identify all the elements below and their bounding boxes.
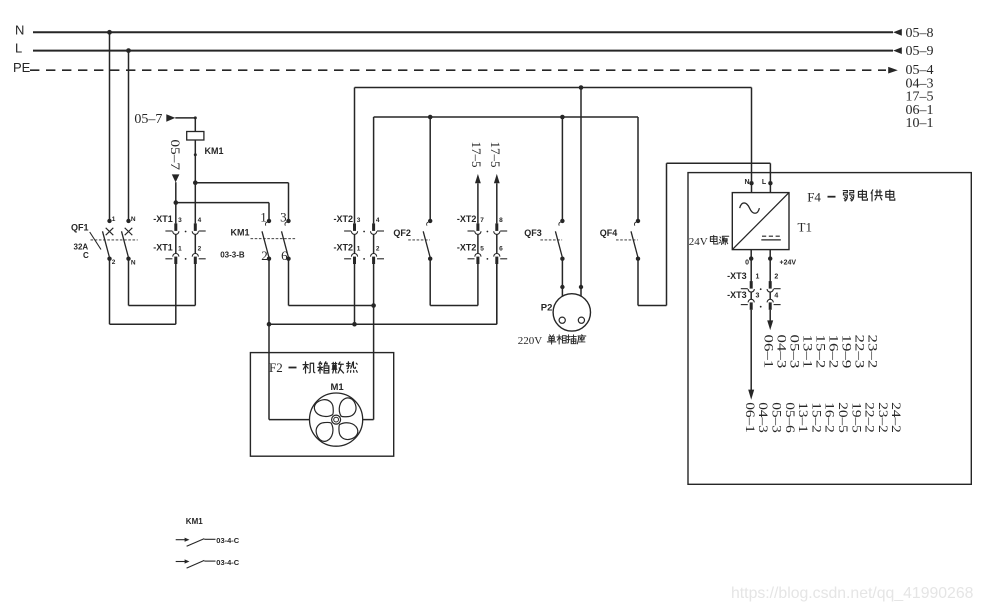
- svg-text:17–5: 17–5: [488, 142, 503, 168]
- svg-text:KM1: KM1: [186, 517, 203, 526]
- svg-text:03-4-C: 03-4-C: [216, 536, 240, 545]
- svg-text:13–1: 13–1: [800, 335, 814, 369]
- svg-text:3: 3: [280, 210, 287, 225]
- svg-text:N: N: [131, 216, 136, 223]
- svg-text:04–3: 04–3: [774, 335, 788, 369]
- svg-text:-XT2: -XT2: [333, 214, 353, 224]
- svg-text:N: N: [744, 179, 749, 186]
- svg-text:220V: 220V: [518, 335, 543, 347]
- svg-text:24–2: 24–2: [889, 402, 904, 433]
- svg-text:6: 6: [499, 246, 503, 253]
- svg-text:7: 7: [480, 217, 484, 224]
- svg-text:5: 5: [480, 246, 484, 253]
- svg-text:2: 2: [261, 248, 268, 263]
- svg-text:23–2: 23–2: [865, 335, 879, 369]
- svg-text:3: 3: [178, 217, 182, 224]
- svg-text:KM1: KM1: [205, 146, 224, 156]
- svg-text:L: L: [15, 41, 22, 56]
- svg-text:-XT2: -XT2: [333, 243, 353, 253]
- svg-text:-XT3: -XT3: [727, 290, 747, 300]
- svg-text:-XT2: -XT2: [457, 243, 477, 253]
- svg-text:3: 3: [357, 217, 361, 224]
- svg-text:16–2: 16–2: [826, 335, 840, 369]
- svg-text:QF4: QF4: [600, 228, 618, 238]
- svg-text:3: 3: [756, 293, 760, 300]
- svg-text:-XT3: -XT3: [727, 271, 747, 281]
- svg-text:1: 1: [178, 246, 182, 253]
- svg-text:24V: 24V: [689, 236, 708, 248]
- svg-text:1: 1: [260, 210, 267, 225]
- svg-text:4: 4: [376, 217, 380, 224]
- svg-text:QF3: QF3: [524, 228, 542, 238]
- svg-text:F4: F4: [807, 189, 821, 204]
- svg-text:19–9: 19–9: [839, 335, 853, 369]
- svg-text:05–3: 05–3: [787, 335, 801, 369]
- svg-text:T1: T1: [798, 219, 812, 234]
- svg-text:4: 4: [198, 217, 202, 224]
- svg-text:4: 4: [774, 293, 778, 300]
- svg-text:QF1: QF1: [71, 223, 89, 233]
- svg-text:C: C: [83, 251, 89, 260]
- svg-text:-XT1: -XT1: [153, 243, 173, 253]
- svg-text:10–1: 10–1: [906, 116, 934, 131]
- svg-text:03-3-B: 03-3-B: [220, 250, 245, 259]
- svg-text:2: 2: [774, 274, 778, 281]
- svg-text:22–3: 22–3: [852, 335, 866, 369]
- svg-text:05–7: 05–7: [134, 112, 162, 127]
- svg-text:N: N: [15, 22, 24, 37]
- svg-text:8: 8: [499, 217, 503, 224]
- svg-text:L: L: [762, 179, 767, 186]
- svg-text:+24V: +24V: [780, 259, 797, 266]
- svg-text:05–8: 05–8: [906, 26, 934, 41]
- svg-text:https://blog.csdn.net/qq_41990: https://blog.csdn.net/qq_41990268: [731, 585, 974, 602]
- svg-text:M1: M1: [331, 382, 345, 393]
- svg-text:1: 1: [357, 246, 361, 253]
- svg-text:KM1: KM1: [231, 227, 250, 237]
- svg-text:06–1: 06–1: [761, 335, 775, 369]
- svg-text:2: 2: [376, 246, 380, 253]
- svg-text:QF2: QF2: [393, 228, 411, 238]
- svg-text:05–7: 05–7: [167, 139, 182, 170]
- svg-text:15–2: 15–2: [813, 335, 827, 369]
- svg-text:2: 2: [112, 259, 116, 266]
- svg-text:17–5: 17–5: [469, 142, 484, 168]
- svg-text:N: N: [131, 259, 136, 266]
- svg-text:0: 0: [745, 259, 749, 266]
- svg-text:P2: P2: [541, 302, 553, 313]
- svg-text:1: 1: [756, 274, 760, 281]
- svg-text:2: 2: [198, 246, 202, 253]
- svg-text:6: 6: [281, 248, 288, 263]
- svg-text:05–9: 05–9: [906, 44, 934, 59]
- svg-text:1: 1: [112, 216, 116, 223]
- svg-text:-XT1: -XT1: [153, 214, 173, 224]
- svg-text:F2: F2: [269, 360, 283, 375]
- svg-text:PE: PE: [13, 60, 31, 75]
- svg-text:03-4-C: 03-4-C: [216, 558, 240, 567]
- svg-text:-XT2: -XT2: [457, 214, 477, 224]
